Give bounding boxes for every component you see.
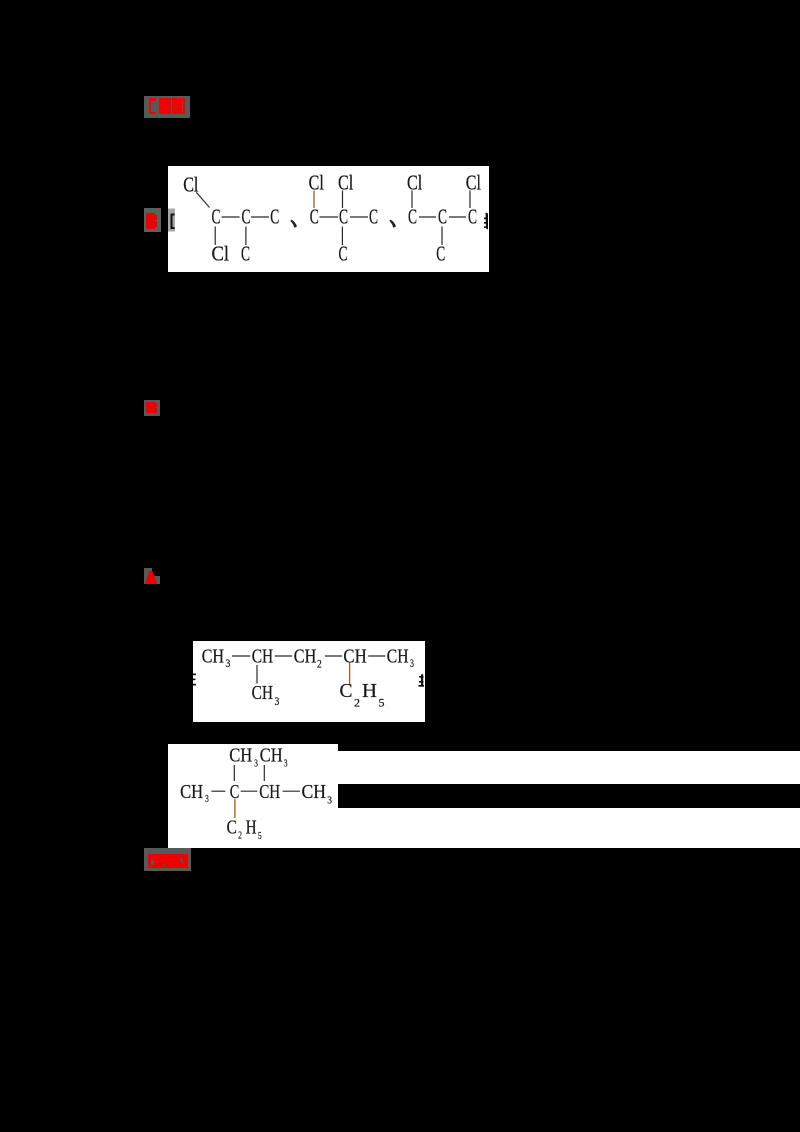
svg-text:CH: CH xyxy=(229,746,252,767)
svg-text:C: C xyxy=(339,205,348,229)
svg-text:Cl: Cl xyxy=(309,171,324,195)
svg-text:C: C xyxy=(310,205,319,229)
svg-text:C: C xyxy=(339,241,348,265)
svg-text:5: 5 xyxy=(258,830,262,842)
svg-text:C: C xyxy=(436,241,445,265)
clipped char fragment right edge xyxy=(421,674,423,686)
vertical bond to Cl xyxy=(214,227,216,246)
svg-text:CH: CH xyxy=(202,645,224,667)
svg-text:CH: CH xyxy=(180,782,203,803)
svg-text:3: 3 xyxy=(254,757,258,769)
svg-text:3: 3 xyxy=(327,795,332,807)
svg-text:H: H xyxy=(246,817,257,838)
diagonal bond xyxy=(196,192,209,207)
svg-text:3: 3 xyxy=(275,696,280,708)
svg-text:CH: CH xyxy=(387,645,409,667)
clipped char fragment left edge xyxy=(193,674,196,676)
svg-text:Cl: Cl xyxy=(407,171,422,195)
svg-text:3: 3 xyxy=(410,658,414,670)
svg-text:Cl: Cl xyxy=(338,171,353,195)
svg-text:C: C xyxy=(212,205,221,229)
svg-text:C: C xyxy=(227,817,237,838)
colored bond xyxy=(313,191,315,209)
bond xyxy=(251,216,269,218)
svg-text:Cl: Cl xyxy=(212,241,230,265)
bond xyxy=(325,655,342,657)
vertical bond to C xyxy=(245,227,247,246)
svg-text:CH: CH xyxy=(302,782,327,803)
svg-text:C: C xyxy=(468,205,477,229)
svg-text:CH: CH xyxy=(252,682,273,704)
svg-text:C: C xyxy=(241,241,250,265)
red answer mark A/4 (question 4) xyxy=(144,568,152,584)
colored vertical bond to C2H5 xyxy=(349,663,351,685)
vertical bonds from top CH3s xyxy=(233,765,235,781)
black hidden-text band xyxy=(335,784,800,808)
separator 、 xyxy=(389,220,396,228)
svg-text:C: C xyxy=(369,205,378,229)
gray selection strip with partial [ bracket xyxy=(168,209,175,232)
formula image box 1: three dichloropropane skeletons xyxy=(168,166,489,272)
bond xyxy=(232,655,250,657)
bond xyxy=(368,655,385,657)
svg-text:C: C xyxy=(242,205,251,229)
red answer mark B (question 2) xyxy=(144,208,161,232)
svg-text:2: 2 xyxy=(354,698,360,710)
answer label [答案] red bold on gray highlight xyxy=(144,96,190,118)
svg-text:5: 5 xyxy=(379,698,385,710)
red answer mark B (question 3) xyxy=(144,400,160,416)
svg-text:Cl: Cl xyxy=(466,171,481,195)
svg-text:C: C xyxy=(340,680,353,702)
svg-text:3: 3 xyxy=(205,793,209,805)
clipped character fragment at right edge xyxy=(484,218,488,220)
formula image box 6: C(CH3)2(C2H5)-CH(CH3)-CH3 xyxy=(168,744,338,848)
svg-text:3: 3 xyxy=(226,658,231,670)
svg-text:2: 2 xyxy=(238,829,242,841)
analysis label [解析] bold red on gray xyxy=(144,848,191,871)
bond xyxy=(342,191,344,209)
svg-text:CH: CH xyxy=(259,782,280,803)
svg-text:CH: CH xyxy=(260,746,283,767)
formula image box 5: CH3-CH-CH2-CH-CH3 with CH3 / C2H5 substituents xyxy=(193,641,425,722)
separator 、 xyxy=(290,220,297,228)
svg-text:C: C xyxy=(408,205,417,229)
bond xyxy=(275,655,293,657)
white text-line band right of box 6 xyxy=(335,751,800,848)
svg-text:C: C xyxy=(270,205,279,229)
svg-text:CH: CH xyxy=(294,645,317,667)
svg-text:CH: CH xyxy=(343,645,366,667)
colored vertical bond to C2H5 xyxy=(234,799,236,818)
svg-text:2: 2 xyxy=(317,659,322,671)
bond xyxy=(222,216,240,218)
svg-text:3: 3 xyxy=(284,757,288,769)
svg-text:C: C xyxy=(438,205,447,229)
svg-text:H: H xyxy=(362,680,377,702)
vertical bond to CH3 xyxy=(256,665,258,684)
svg-text:CH: CH xyxy=(252,645,274,667)
